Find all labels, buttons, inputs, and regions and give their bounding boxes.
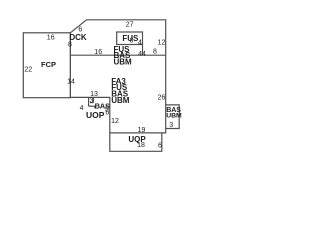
- svg-text:26: 26: [158, 94, 166, 101]
- svg-text:19: 19: [138, 127, 146, 134]
- svg-text:3: 3: [90, 98, 94, 105]
- svg-text:DCK: DCK: [69, 33, 87, 42]
- svg-text:6: 6: [105, 110, 109, 117]
- svg-text:44: 44: [138, 51, 146, 58]
- svg-text:4: 4: [138, 39, 142, 46]
- tiny 3-box vertical: [92, 97, 94, 102]
- svg-text:8: 8: [68, 42, 72, 49]
- svg-text:8: 8: [153, 49, 157, 56]
- porch UQP outline: [110, 133, 162, 151]
- svg-text:UBM: UBM: [111, 96, 130, 105]
- svg-text:UBM: UBM: [166, 112, 182, 119]
- FUS inner box: [117, 32, 143, 45]
- svg-text:8: 8: [130, 38, 134, 45]
- svg-text:UOP: UOP: [86, 110, 105, 120]
- right bump BAS/UBM: [166, 105, 180, 129]
- tiny 3-box horizontal: [90, 102, 93, 104]
- FUS box right edge extension: [142, 45, 144, 56]
- svg-text:6: 6: [158, 143, 162, 150]
- notch vertical x=88.6: [88, 97, 90, 106]
- notch horizontal y=106.2: [89, 105, 95, 107]
- svg-text:16: 16: [47, 35, 55, 42]
- svg-text:4: 4: [80, 105, 84, 112]
- svg-text:16: 16: [94, 49, 102, 56]
- carport FCP outline: [23, 33, 70, 98]
- interior line y=55: [70, 54, 165, 56]
- svg-text:22: 22: [24, 66, 32, 73]
- svg-text:12: 12: [111, 118, 119, 125]
- notch stub: [94, 106, 96, 108]
- svg-text:27: 27: [126, 21, 134, 28]
- svg-text:UBM: UBM: [114, 58, 133, 67]
- svg-text:12: 12: [158, 40, 166, 47]
- svg-text:18: 18: [137, 142, 145, 149]
- svg-text:FCP: FCP: [41, 60, 56, 69]
- svg-text:3: 3: [169, 122, 173, 129]
- svg-text:14: 14: [67, 79, 75, 86]
- main building outline with deck diagonal: [70, 20, 165, 133]
